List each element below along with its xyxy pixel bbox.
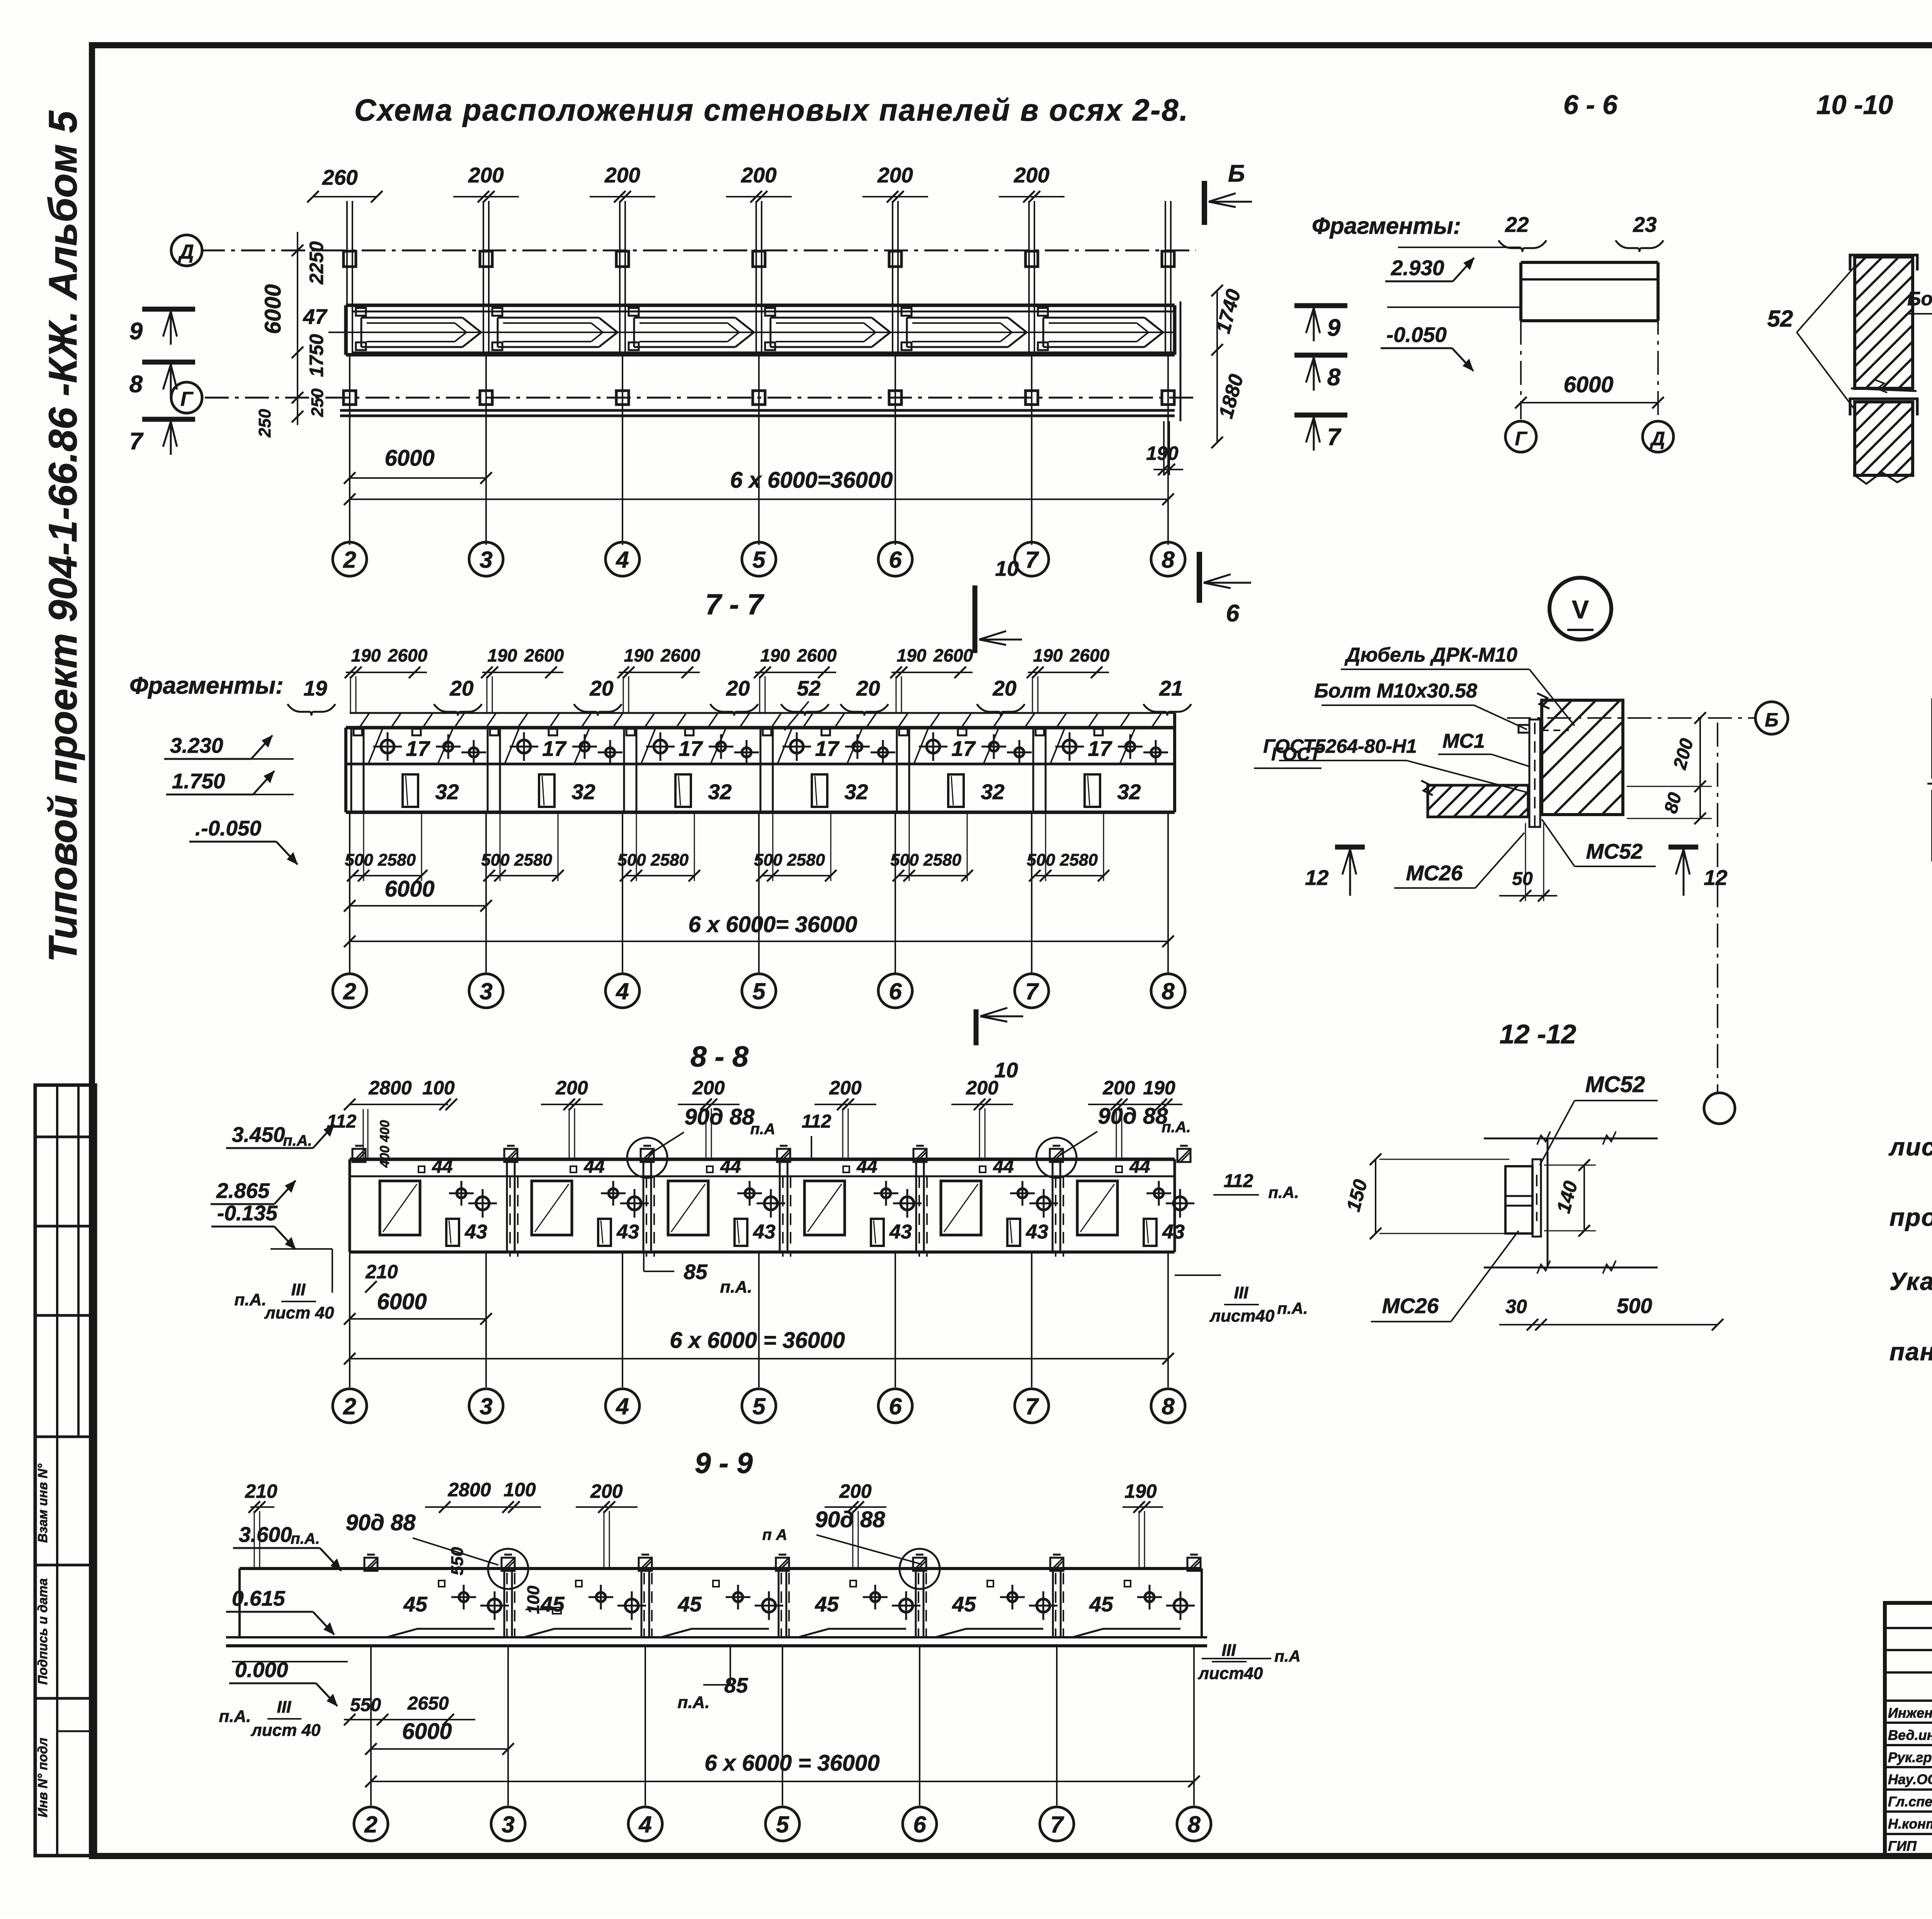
svg-text:45: 45 — [1089, 1592, 1114, 1616]
svg-text:2.930: 2.930 — [1391, 256, 1444, 280]
svg-text:2580: 2580 — [787, 851, 825, 869]
svg-text:200: 200 — [590, 1480, 623, 1502]
svg-text:6: 6 — [889, 547, 902, 573]
svg-text:6 х 6000 = 36000: 6 х 6000 = 36000 — [704, 1751, 879, 1776]
svg-text:200: 200 — [604, 163, 640, 187]
svg-text:550: 550 — [448, 1547, 467, 1575]
svg-text:1750: 1750 — [306, 334, 327, 377]
svg-text:190: 190 — [624, 645, 654, 665]
9-9 joints and anchors — [364, 1558, 378, 1571]
svg-text:Болт М10х30.58: Болт М10х30.58 — [1314, 680, 1477, 702]
axis Г dash-dot line — [205, 397, 1196, 399]
10-10 break mark — [1851, 388, 1917, 391]
left margin stamp table — [35, 1085, 95, 1856]
svg-text:7: 7 — [1025, 978, 1039, 1004]
upper wall band of plan — [346, 304, 1175, 307]
svg-text:3.230: 3.230 — [170, 733, 223, 757]
svg-text:190: 190 — [351, 645, 381, 665]
svg-text:6000: 6000 — [1563, 372, 1613, 397]
svg-text:12: 12 — [1305, 866, 1329, 890]
svg-text:п.А.: п.А. — [219, 1707, 251, 1726]
svg-text:250: 250 — [255, 409, 274, 438]
svg-text:п.А.: п.А. — [1162, 1119, 1191, 1136]
svg-text:4: 4 — [616, 547, 629, 573]
svg-text:210: 210 — [365, 1261, 398, 1283]
svg-text:43: 43 — [616, 1221, 639, 1243]
12-12 panel end block — [1505, 1166, 1532, 1233]
detail V circle — [1549, 578, 1611, 640]
svg-text:32: 32 — [844, 780, 868, 804]
svg-text:-0.135: -0.135 — [217, 1201, 278, 1225]
right rotated dims 1740 1880 — [1216, 291, 1218, 442]
svg-text:6 х 6000=36000: 6 х 6000=36000 — [730, 468, 893, 493]
svg-text:32: 32 — [435, 780, 459, 804]
svg-text:лист40: лист40 — [1209, 1307, 1275, 1325]
svg-text:17: 17 — [679, 737, 703, 760]
svg-text:2: 2 — [343, 547, 356, 573]
svg-text:7: 7 — [1025, 547, 1039, 573]
svg-text:III: III — [1234, 1283, 1248, 1302]
svg-text:90д 88: 90д 88 — [685, 1104, 755, 1130]
svg-text:44: 44 — [856, 1157, 877, 1177]
svg-text:200: 200 — [877, 163, 913, 187]
svg-text:43: 43 — [1026, 1221, 1048, 1243]
svg-text:47: 47 — [303, 305, 328, 328]
8-8 per-bay windows and symbols — [380, 1181, 420, 1235]
svg-text:2580: 2580 — [923, 851, 961, 869]
svg-text:44: 44 — [583, 1157, 604, 1177]
svg-text:20: 20 — [992, 676, 1017, 700]
svg-text:0.615: 0.615 — [232, 1586, 286, 1610]
svg-text:-0.050: -0.050 — [1386, 323, 1447, 347]
svg-text:п.А.: п.А. — [1268, 1183, 1299, 1201]
svg-text:5: 5 — [776, 1812, 789, 1837]
section marks 12 of V — [1335, 845, 1365, 850]
hatch slashes on 7-7 top strip — [359, 713, 369, 728]
axis circle Д — [171, 235, 202, 266]
svg-text:6 - 6: 6 - 6 — [1563, 90, 1618, 120]
svg-text:20: 20 — [726, 676, 750, 700]
svg-text:20: 20 — [856, 676, 880, 700]
axis circles below 7-7 — [333, 974, 367, 1008]
svg-text:44: 44 — [993, 1157, 1014, 1177]
svg-text:5: 5 — [752, 978, 766, 1004]
svg-text:90д 88: 90д 88 — [815, 1507, 886, 1532]
lower wall band of plan — [340, 409, 1175, 412]
svg-text:панелей смотрите на листе 34.: панелей смотрите на листе 34. — [1889, 1338, 1932, 1366]
panel chevrons in plan upper wall — [361, 317, 463, 319]
svg-text:Г: Г — [180, 388, 194, 410]
svg-text:лист40: лист40 — [1198, 1664, 1263, 1683]
svg-text:2.865: 2.865 — [216, 1179, 270, 1203]
section mark 10 above section 7-7 — [973, 585, 978, 653]
svg-text:4: 4 — [616, 1393, 629, 1419]
svg-text:МС26: МС26 — [1406, 861, 1463, 885]
svg-text:2: 2 — [364, 1812, 377, 1837]
witness lines below 7-7 — [349, 812, 350, 974]
10-10 partition column upper segment — [1855, 257, 1913, 388]
6-6 panel rectangle — [1521, 261, 1658, 264]
witness lines below 9-9 — [370, 1646, 372, 1805]
svg-text:7: 7 — [1050, 1812, 1064, 1837]
svg-text:44: 44 — [432, 1157, 452, 1177]
svg-text:III: III — [1222, 1641, 1236, 1660]
svg-text:200: 200 — [839, 1480, 872, 1502]
svg-text:Г: Г — [1515, 428, 1528, 449]
axis circles row below plan — [333, 542, 367, 576]
witness lines below 8-8 — [349, 1252, 350, 1387]
svg-text:550: 550 — [350, 1695, 381, 1715]
svg-text:Нау.ОСП-1: Нау.ОСП-1 — [1888, 1771, 1932, 1787]
svg-text:190: 190 — [760, 645, 790, 665]
svg-text:МС52: МС52 — [1585, 1072, 1645, 1097]
svg-text:32: 32 — [571, 780, 595, 804]
12-12 top line with breaks — [1484, 1138, 1658, 1140]
svg-text:45: 45 — [952, 1592, 976, 1616]
svg-text:3: 3 — [480, 978, 492, 1004]
svg-text:190: 190 — [1146, 442, 1179, 464]
svg-text:2600: 2600 — [660, 645, 701, 665]
svg-text:100: 100 — [422, 1077, 455, 1099]
svg-text:190: 190 — [1033, 645, 1063, 665]
svg-text:200: 200 — [1014, 163, 1049, 187]
svg-text:2: 2 — [343, 978, 356, 1004]
svg-text:200: 200 — [555, 1077, 588, 1099]
svg-text:6000: 6000 — [377, 1289, 427, 1314]
svg-text:п.А.: п.А. — [677, 1693, 709, 1712]
svg-text:Схема расположения стеновых: Схема расположения стеновых панелей в ос… — [354, 93, 1189, 127]
8-8 label 85 — [643, 1252, 645, 1271]
svg-text:12: 12 — [1704, 866, 1728, 890]
column stubs on axis Д — [344, 251, 356, 267]
svg-text:20: 20 — [589, 676, 614, 700]
svg-text:3: 3 — [502, 1812, 514, 1837]
svg-text:500: 500 — [1617, 1294, 1652, 1318]
svg-text:6000: 6000 — [384, 446, 434, 471]
svg-text:20: 20 — [449, 676, 474, 700]
svg-text:.-0.050: .-0.050 — [195, 816, 262, 840]
svg-text:17: 17 — [815, 737, 840, 760]
svg-text:6: 6 — [913, 1812, 926, 1837]
svg-text:8: 8 — [129, 371, 143, 398]
axis Д dash-dot line — [201, 250, 1196, 252]
svg-text:200: 200 — [468, 163, 504, 187]
V vertical wall hatched — [1542, 700, 1623, 815]
V dims 200 80 — [1699, 718, 1701, 818]
svg-text:Инв N° подл: Инв N° подл — [36, 1738, 50, 1817]
V bolt mark — [1519, 725, 1529, 733]
svg-text:2650: 2650 — [407, 1693, 449, 1714]
svg-text:9: 9 — [129, 318, 143, 345]
svg-text:5: 5 — [752, 547, 766, 573]
svg-text:ГОСТ5264-80-Н1: ГОСТ5264-80-Н1 — [1263, 735, 1417, 757]
svg-text:2580: 2580 — [514, 851, 552, 869]
svg-text:200: 200 — [692, 1077, 725, 1099]
svg-text:2800: 2800 — [368, 1077, 412, 1099]
svg-text:100: 100 — [503, 1479, 536, 1500]
svg-text:45: 45 — [677, 1592, 702, 1616]
svg-text:Д: Д — [1650, 428, 1665, 449]
svg-text:19: 19 — [303, 676, 327, 700]
column stubs on axis Г — [344, 391, 356, 405]
vertical dim chain left of plan — [297, 232, 298, 425]
8-8 band — [350, 1158, 1175, 1161]
right section marks 9 8 7 of plan — [1294, 303, 1347, 308]
svg-text:22: 22 — [1505, 213, 1529, 236]
svg-text:III: III — [277, 1698, 291, 1717]
svg-text:2580: 2580 — [378, 851, 416, 869]
section mark Б bottom right of plan — [1197, 552, 1202, 603]
svg-text:7: 7 — [1025, 1393, 1039, 1419]
9-9 label 85 — [730, 1646, 731, 1685]
12-12 right panel line — [1547, 1138, 1549, 1267]
left section marks 9 8 7 of plan — [142, 307, 195, 312]
svg-text:30: 30 — [1505, 1296, 1527, 1317]
svg-text:3: 3 — [480, 1393, 492, 1419]
svg-text:Н.контр.: Н.контр. — [1888, 1816, 1932, 1832]
7-7 mid line — [346, 763, 1175, 766]
svg-text:6: 6 — [889, 1393, 902, 1419]
svg-text:2580: 2580 — [650, 851, 689, 869]
svg-text:п.А.: п.А. — [291, 1530, 320, 1547]
axis circle Б of V — [1755, 702, 1788, 734]
svg-text:21: 21 — [1159, 676, 1183, 700]
svg-text:БолтМ10х30.5: БолтМ10х30.5 — [1907, 288, 1932, 310]
V axis dash-dot to circle Б — [1507, 717, 1754, 719]
svg-text:2600: 2600 — [933, 645, 973, 665]
svg-text:Взам инв N°: Взам инв N° — [36, 1463, 50, 1543]
svg-text:Б: Б — [1228, 160, 1245, 187]
svg-text:4: 4 — [638, 1812, 651, 1837]
svg-text:3: 3 — [480, 547, 492, 573]
6-6 axis dashed lines down — [1520, 321, 1522, 419]
svg-text:7 - 7: 7 - 7 — [705, 588, 764, 621]
svg-text:43: 43 — [464, 1221, 487, 1243]
svg-text:50: 50 — [1512, 869, 1533, 889]
svg-text:6: 6 — [1226, 600, 1240, 627]
svg-text:43: 43 — [889, 1221, 912, 1243]
7-7 per-bay symbols — [354, 729, 362, 735]
svg-text:6: 6 — [889, 978, 902, 1004]
svg-text:52: 52 — [797, 676, 821, 700]
svg-text:п А: п А — [762, 1526, 787, 1543]
svg-text:Фрагменты:: Фрагменты: — [1312, 213, 1461, 239]
svg-text:3.600: 3.600 — [239, 1523, 292, 1546]
svg-text:43: 43 — [1162, 1221, 1185, 1243]
svg-text:85: 85 — [684, 1260, 708, 1284]
svg-text:190: 190 — [897, 645, 927, 665]
svg-text:Вед.инж: Вед.инж — [1888, 1727, 1932, 1743]
svg-text:8: 8 — [1327, 364, 1341, 391]
svg-text:6000: 6000 — [402, 1719, 452, 1744]
svg-text:лист 40: лист 40 — [250, 1721, 321, 1740]
svg-text:Дюбель ДРК-М10: Дюбель ДРК-М10 — [1344, 644, 1517, 666]
svg-text:Фрагменты:: Фрагменты: — [129, 672, 284, 699]
witness double lines from top dims to wall — [346, 201, 348, 354]
10-10 partition column lower segment — [1855, 402, 1913, 475]
svg-text:2600: 2600 — [797, 645, 837, 665]
svg-text:200: 200 — [829, 1077, 862, 1099]
V vertical axis line down — [1717, 723, 1718, 1092]
6-6 axis circles Г Д — [1505, 421, 1536, 452]
svg-text:7: 7 — [129, 428, 144, 455]
svg-text:17: 17 — [542, 737, 567, 760]
svg-text:32: 32 — [1117, 780, 1141, 804]
svg-text:112: 112 — [1224, 1171, 1253, 1191]
svg-text:9 - 9: 9 - 9 — [695, 1447, 753, 1479]
svg-text:23: 23 — [1633, 213, 1656, 236]
svg-text:Д: Д — [178, 241, 194, 263]
svg-text:ГИП: ГИП — [1888, 1838, 1917, 1854]
svg-text:12 -12: 12 -12 — [1500, 1019, 1577, 1049]
svg-text:Подпись и дата: Подпись и дата — [36, 1578, 50, 1685]
svg-text:Гл.спец.: Гл.спец. — [1888, 1794, 1932, 1810]
svg-text:500: 500 — [1027, 851, 1055, 869]
svg-text:8: 8 — [1162, 1393, 1175, 1419]
svg-text:190: 190 — [1143, 1077, 1175, 1099]
svg-text:Типовой проект 904-1-66.86 -: Типовой проект 904-1-66.86 -КЖ. Альбом 5 — [41, 110, 85, 962]
svg-text:17: 17 — [951, 737, 976, 760]
svg-text:90д 88: 90д 88 — [346, 1510, 416, 1535]
V horizontal slab hatched — [1428, 785, 1528, 817]
svg-text:МС52: МС52 — [1586, 839, 1643, 863]
section mark 10 below 7-7 — [974, 1009, 979, 1045]
svg-text:7: 7 — [1327, 424, 1342, 451]
svg-text:500: 500 — [481, 851, 510, 869]
svg-text:85: 85 — [724, 1673, 748, 1697]
svg-text:2600: 2600 — [1070, 645, 1110, 665]
svg-text:Б: Б — [1765, 709, 1778, 731]
axis circles below 9-9 — [354, 1807, 388, 1841]
svg-text:8: 8 — [1162, 978, 1175, 1004]
section mark Б top right of plan — [1202, 181, 1207, 225]
svg-text:МС1: МС1 — [1442, 730, 1485, 752]
12-12 bottom line with breaks — [1484, 1267, 1658, 1269]
V connection plate — [1529, 720, 1540, 827]
svg-text:6 х 6000 = 36000: 6 х 6000 = 36000 — [670, 1328, 845, 1353]
svg-text:8: 8 — [1187, 1812, 1201, 1837]
svg-text:Указаниями серии 1.030. 9-2: Указаниями серии 1.030. 9-2 вып. О. — [1889, 1267, 1932, 1295]
witness lines below plan — [349, 355, 350, 545]
svg-text:1.750: 1.750 — [172, 769, 225, 793]
svg-text:пробить по месту.: пробить по месту. — [1889, 1203, 1932, 1231]
9-9 band — [240, 1567, 1202, 1570]
svg-text:8: 8 — [1162, 547, 1175, 573]
svg-text:43: 43 — [753, 1221, 776, 1243]
svg-text:4: 4 — [616, 978, 629, 1004]
svg-text:листы, приняты по серии 1.030: листы, приняты по серии 1.030.9-2 вып. 6… — [1888, 1133, 1932, 1161]
svg-text:200: 200 — [1102, 1077, 1135, 1099]
svg-text:112: 112 — [802, 1111, 832, 1132]
svg-text:п.А: п.А — [750, 1121, 775, 1138]
svg-text:200: 200 — [741, 163, 777, 187]
svg-text:лист 40: лист 40 — [264, 1303, 334, 1322]
svg-text:п.А.: п.А. — [1277, 1299, 1308, 1317]
svg-text:500: 500 — [345, 851, 373, 869]
svg-text:2580: 2580 — [1060, 851, 1098, 869]
svg-text:44: 44 — [1129, 1157, 1150, 1177]
svg-text:45: 45 — [403, 1592, 428, 1616]
svg-text:III: III — [291, 1280, 306, 1299]
svg-text:210: 210 — [245, 1480, 277, 1502]
svg-text:250: 250 — [308, 388, 327, 417]
svg-text:п.А.: п.А. — [720, 1278, 752, 1296]
svg-text:44: 44 — [720, 1157, 741, 1177]
svg-text:6 х 6000= 36000: 6 х 6000= 36000 — [688, 912, 857, 937]
svg-text:500: 500 — [617, 851, 646, 869]
svg-text:п.А.: п.А. — [234, 1290, 266, 1309]
7-7 top strip — [350, 712, 1175, 714]
svg-text:V: V — [1572, 595, 1589, 624]
VII block seam lines — [1927, 783, 1932, 785]
svg-text:17: 17 — [1088, 737, 1112, 760]
empty axis circle below V — [1704, 1093, 1735, 1124]
svg-text:8 - 8: 8 - 8 — [690, 1040, 748, 1073]
svg-text:500: 500 — [890, 851, 919, 869]
svg-text:500: 500 — [754, 851, 782, 869]
svg-text:5: 5 — [752, 1393, 766, 1419]
svg-text:9: 9 — [1327, 315, 1341, 341]
svg-text:6000: 6000 — [384, 876, 434, 902]
12-12 dim 150 — [1375, 1159, 1376, 1233]
svg-text:32: 32 — [708, 780, 732, 804]
12-12 dim 140 — [1583, 1165, 1585, 1231]
svg-text:2600: 2600 — [524, 645, 564, 665]
svg-text:6000: 6000 — [260, 284, 286, 334]
7-7 bottom line — [346, 811, 1175, 814]
svg-text:260: 260 — [322, 165, 358, 189]
8-8 joints and anchors — [352, 1149, 366, 1162]
svg-text:190: 190 — [488, 645, 517, 665]
svg-text:Инженер: Инженер — [1888, 1705, 1932, 1721]
svg-text:10: 10 — [995, 556, 1019, 580]
svg-text:90д 88: 90д 88 — [1098, 1104, 1168, 1129]
12-12 plate — [1532, 1159, 1541, 1237]
svg-text:200: 200 — [966, 1077, 998, 1099]
axis circle Г — [171, 382, 202, 413]
svg-text:Рук.гр.: Рук.гр. — [1888, 1749, 1932, 1765]
svg-text:п.А.: п.А. — [283, 1132, 312, 1149]
svg-text:МС26: МС26 — [1382, 1294, 1439, 1318]
axis circles below 8-8 — [333, 1389, 367, 1423]
title block signature table — [1885, 1603, 1932, 1856]
svg-text:52: 52 — [1767, 306, 1793, 332]
svg-text:2250: 2250 — [306, 241, 327, 284]
svg-text:2800: 2800 — [447, 1479, 491, 1500]
svg-text:3.450: 3.450 — [232, 1123, 285, 1147]
svg-text:32: 32 — [981, 780, 1005, 804]
svg-text:п.А: п.А — [1274, 1647, 1301, 1665]
svg-text:45: 45 — [815, 1592, 839, 1616]
svg-text:2600: 2600 — [388, 645, 428, 665]
svg-text:17: 17 — [406, 737, 430, 760]
svg-text:2: 2 — [343, 1393, 356, 1419]
svg-text:190: 190 — [1124, 1480, 1157, 1502]
svg-text:10 -10: 10 -10 — [1816, 90, 1893, 120]
